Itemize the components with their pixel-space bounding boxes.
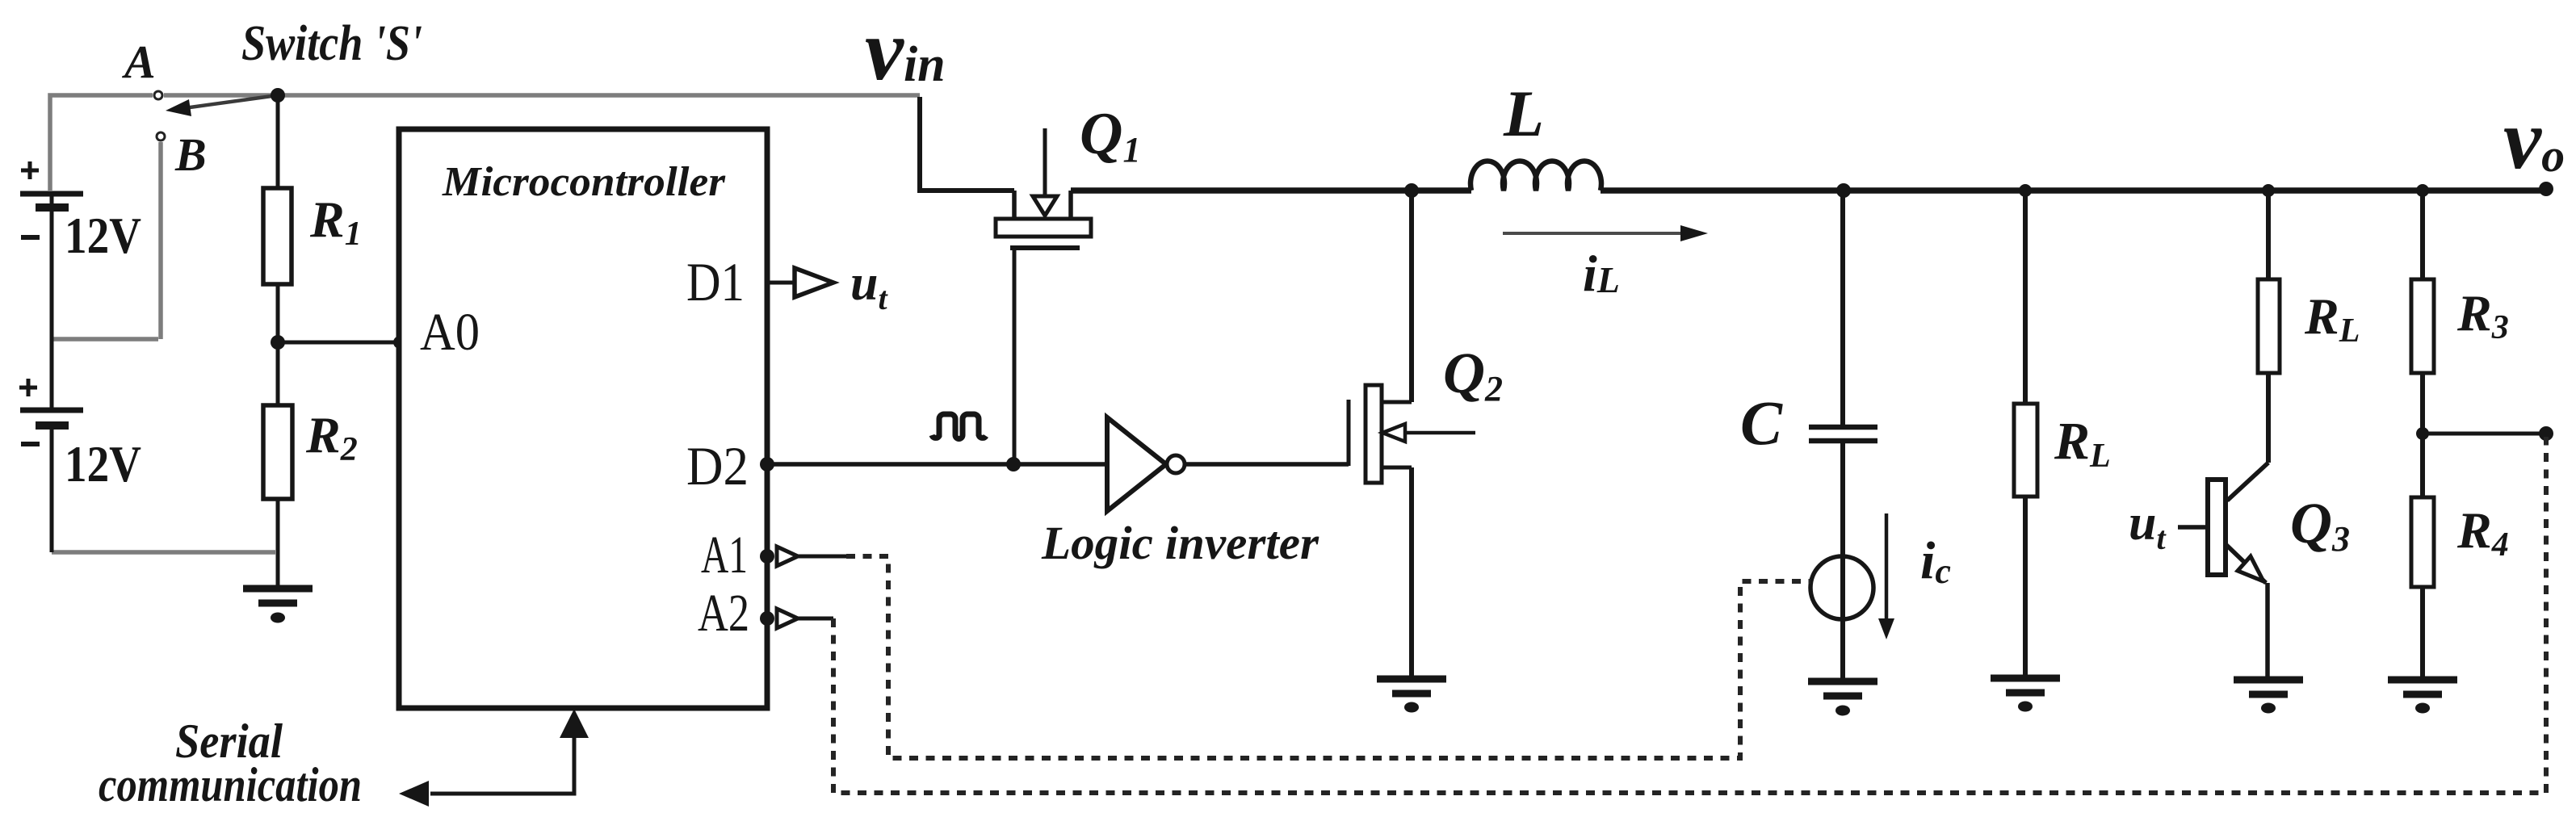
- svg-text:B: B: [174, 128, 207, 181]
- svg-text:L: L: [1503, 77, 1544, 150]
- svg-text:Microcontroller: Microcontroller: [442, 159, 726, 205]
- svg-text:A2: A2: [698, 584, 749, 643]
- svg-text:D2: D2: [686, 435, 749, 497]
- svg-text:A: A: [122, 36, 156, 88]
- svg-text:Logic inverter: Logic inverter: [1041, 517, 1319, 569]
- svg-text:C: C: [1740, 388, 1783, 458]
- svg-text:A0: A0: [420, 303, 480, 362]
- svg-text:12V: 12V: [65, 435, 141, 492]
- svg-text:12V: 12V: [65, 207, 141, 264]
- svg-text:D1: D1: [686, 251, 745, 312]
- svg-text:Switch 'S': Switch 'S': [241, 16, 422, 71]
- svg-text:A1: A1: [701, 526, 748, 585]
- svg-text:communication: communication: [99, 758, 362, 811]
